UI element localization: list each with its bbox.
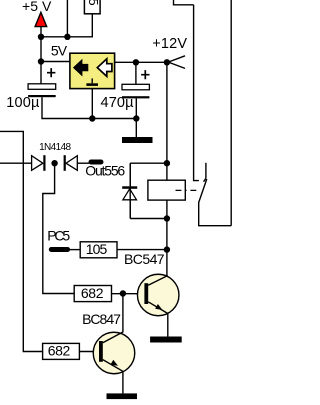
svg-text:+12V: +12V [152, 36, 187, 52]
svg-text:105: 105 [86, 241, 108, 257]
svg-text:1N4148: 1N4148 [39, 142, 71, 153]
svg-text:682: 682 [81, 285, 104, 301]
svg-text:BC847: BC847 [82, 311, 121, 327]
svg-text:PC5: PC5 [47, 227, 70, 243]
svg-text:+5 V: +5 V [22, 0, 52, 14]
svg-text:682: 682 [48, 343, 71, 359]
svg-text:470µ: 470µ [101, 95, 135, 111]
svg-text:5V: 5V [51, 43, 68, 59]
svg-text:5: 5 [86, 0, 101, 6]
svg-text:Out556: Out556 [85, 162, 125, 178]
svg-text:100µ: 100µ [6, 95, 40, 111]
svg-text:BC547: BC547 [124, 251, 165, 267]
